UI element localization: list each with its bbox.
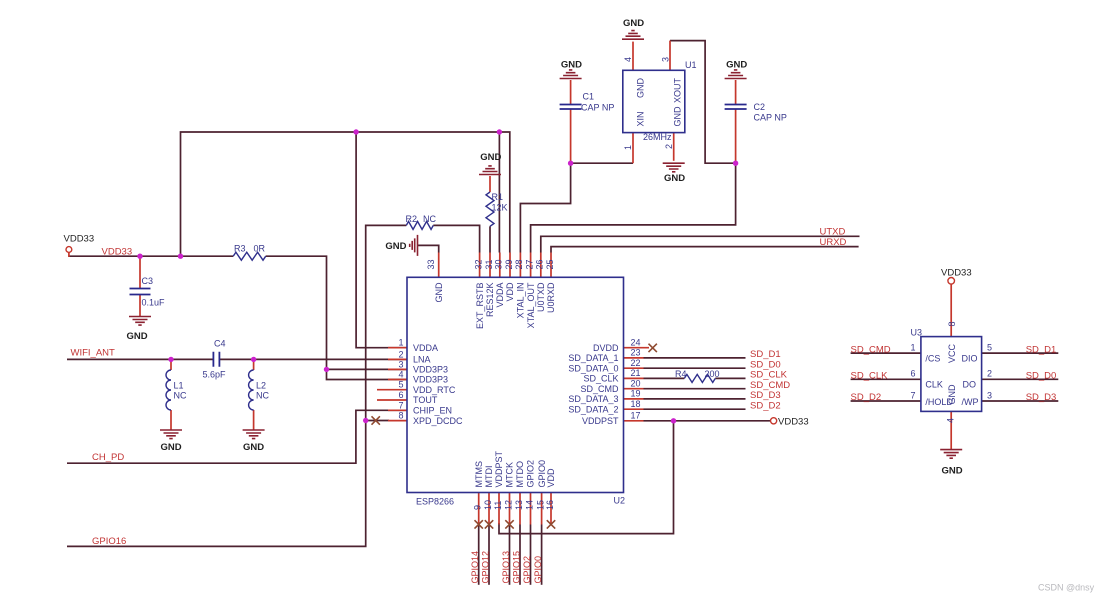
svg-text:R1: R1	[492, 192, 504, 202]
pin U3-8 VCC stub	[950, 284, 952, 336]
svg-text:GND: GND	[941, 466, 962, 477]
svg-text:XPD_DCDC: XPD_DCDC	[413, 416, 463, 426]
no-connect X pin 10	[485, 520, 493, 528]
pin 25 U0RXD stub	[550, 253, 552, 278]
pin 15 GPIO0 stub	[541, 493, 543, 525]
wire pin 8 stub link	[366, 420, 389, 422]
pin U1-2 GND stub	[673, 133, 675, 161]
svg-text:SD_CLK: SD_CLK	[583, 374, 618, 384]
svg-text:4: 4	[945, 418, 955, 423]
svg-text:GND: GND	[636, 78, 646, 99]
pin L2 top lead	[253, 359, 255, 370]
pin R1 top lead to ground	[489, 176, 491, 192]
capacitor C4 plates	[213, 352, 219, 367]
pin 12 MTCK stub	[509, 493, 511, 525]
wire U3 SD_D0 wire	[982, 378, 1059, 380]
wire CH_PD to pin 7 CHIP_EN	[67, 410, 407, 463]
svg-text:GPIO15: GPIO15	[512, 551, 522, 584]
svg-text:SD_D2: SD_D2	[851, 392, 882, 403]
svg-text:DVDD: DVDD	[593, 343, 619, 353]
svg-text:5.6pF: 5.6pF	[203, 370, 227, 380]
svg-text:VDDA: VDDA	[413, 343, 438, 353]
svg-text:L1: L1	[174, 381, 184, 391]
svg-text:VDDPST: VDDPST	[582, 416, 619, 426]
pin 16 VDD stub	[550, 493, 552, 525]
wire VDDPST net pin 17 to VDD33 port	[644, 420, 771, 422]
svg-text:/WP: /WP	[962, 397, 979, 407]
svg-text:17: 17	[631, 411, 641, 421]
junction node rail-VDDA	[353, 129, 358, 134]
svg-text:R2: R2	[406, 214, 418, 224]
svg-text:SD_D1: SD_D1	[1026, 344, 1057, 355]
svg-text:VDD33: VDD33	[778, 417, 809, 428]
wire XTAL_OUT net pin 27 to C2/XOUT junction	[531, 163, 736, 252]
svg-text:3: 3	[398, 359, 403, 369]
svg-text:7: 7	[910, 390, 915, 400]
junction node rail-pin30	[497, 129, 502, 134]
svg-text:GND: GND	[160, 442, 181, 453]
wire U3 SD_CLK wire	[851, 378, 921, 380]
svg-text:XTAL_OUT: XTAL_OUT	[526, 282, 536, 328]
junction node pin3 tap	[324, 367, 329, 372]
svg-text:VDD: VDD	[505, 282, 515, 302]
svg-text:6: 6	[398, 390, 403, 400]
resistor R2	[406, 221, 433, 229]
junction node rail tap	[178, 254, 183, 259]
svg-text:RES12K: RES12K	[485, 283, 495, 318]
svg-text:25: 25	[545, 259, 555, 269]
junction node L1 tap	[168, 357, 173, 362]
svg-text:U0RXD: U0RXD	[546, 282, 556, 313]
svg-text:GND: GND	[947, 384, 957, 405]
svg-text:2: 2	[664, 144, 674, 149]
pin 6 TOUT stub	[377, 399, 407, 401]
svg-text:GPIO2: GPIO2	[522, 556, 532, 584]
pin 24 DVDD stub	[624, 347, 650, 349]
svg-text:GND: GND	[726, 59, 747, 70]
svg-text:CAP NP: CAP NP	[581, 103, 614, 113]
resistor R1	[486, 192, 494, 226]
svg-text:2: 2	[398, 349, 403, 359]
wire VDD33 horizontal from port to R3	[69, 255, 233, 257]
svg-text:26: 26	[535, 259, 545, 269]
pin 11 VDDPST stub	[498, 493, 500, 525]
crystal U1 body	[623, 70, 685, 132]
svg-text:1: 1	[623, 145, 633, 150]
pin 30 VDDA stub	[499, 253, 501, 278]
capacitor C2 plates	[725, 105, 747, 110]
wire pin 33 GND link	[418, 245, 439, 252]
svg-text:3: 3	[661, 57, 671, 62]
wire U3 SD_CMD wire	[851, 352, 921, 354]
pin 33 GND stub	[438, 253, 440, 278]
svg-text:27: 27	[524, 259, 534, 269]
svg-text:MTMS: MTMS	[474, 461, 484, 488]
svg-text:NC: NC	[256, 391, 269, 401]
pin L1 top lead	[170, 359, 172, 370]
junction node C1-XIN	[568, 161, 573, 166]
pin 13 MTDO stub	[519, 493, 521, 525]
wire GPIO13 wire below pin 12	[509, 525, 511, 585]
svg-text:C1: C1	[583, 92, 595, 102]
capacitor C3 plates	[130, 289, 151, 295]
pin 27 XTAL_OUT stub	[530, 253, 532, 278]
svg-text:R3: R3	[234, 244, 246, 254]
wire SD_D1 net from pin 23	[644, 357, 746, 359]
wire U3 SD_D2 wire	[851, 400, 921, 402]
svg-text:CH_PD: CH_PD	[92, 452, 124, 463]
wire GPIO16 riser / R2 left arm to pin 8 XPD_DCDC	[67, 225, 406, 546]
svg-text:GPIO0: GPIO0	[533, 556, 543, 584]
pin 17 VDDPST stub	[624, 420, 644, 422]
pin C3 bottom lead	[139, 295, 141, 317]
svg-text:23: 23	[631, 348, 641, 358]
pin 23 SD_DATA_1 stub	[624, 357, 644, 359]
pin U3-4 GND stub	[950, 411, 952, 449]
svg-text:GPIO16: GPIO16	[92, 536, 126, 547]
op-amp U2 ESP8266 body	[407, 277, 624, 492]
svg-text:12K: 12K	[492, 203, 508, 213]
pin 1 VDDA stub	[388, 347, 407, 349]
wire rail drop to pin 30	[498, 132, 500, 253]
pin L2 bottom lead	[253, 410, 255, 430]
svg-text:U0TXD: U0TXD	[536, 282, 546, 312]
junction node L2 tap	[251, 357, 256, 362]
svg-text:28: 28	[514, 259, 524, 269]
svg-text:0R: 0R	[254, 244, 266, 254]
svg-text:CSDN @dnsy: CSDN @dnsy	[1038, 583, 1095, 593]
svg-text:VDD3P3: VDD3P3	[413, 375, 448, 385]
svg-text:GPIO12: GPIO12	[481, 551, 491, 584]
pin U1-3 XOUT stub	[669, 41, 671, 71]
svg-text:GND: GND	[434, 282, 444, 303]
svg-text:SD_D2: SD_D2	[750, 400, 781, 411]
wire U1 XOUT loop over top	[670, 41, 736, 164]
svg-text:1: 1	[398, 338, 403, 348]
svg-text:U1: U1	[685, 60, 697, 70]
svg-text:MTDI: MTDI	[484, 466, 494, 488]
svg-text:GND: GND	[385, 241, 406, 252]
svg-text:MTCK: MTCK	[505, 462, 515, 488]
svg-text:SD_DATA_0: SD_DATA_0	[568, 363, 618, 373]
junction node C3 tap	[137, 254, 142, 259]
junction node VDDPST tap	[671, 418, 676, 423]
svg-text:VCC: VCC	[947, 344, 957, 364]
pin C2 top lead	[735, 80, 737, 105]
pin C3 top lead	[139, 256, 141, 288]
svg-text:4: 4	[398, 370, 403, 380]
ground under U1 pin 2	[663, 163, 685, 172]
svg-text:SD_CLK: SD_CLK	[851, 371, 889, 382]
wire U3 SD_D1 wire	[982, 352, 1059, 354]
wire UTXD net from pin 26	[541, 236, 860, 252]
wire GPIO0 wire below pin 15	[541, 525, 543, 585]
svg-text:GND: GND	[480, 152, 501, 163]
pin L1 bottom lead	[170, 410, 172, 430]
svg-text:SD_D3: SD_D3	[1026, 392, 1057, 403]
svg-text:22: 22	[631, 358, 641, 368]
no-connect X pin 16	[547, 520, 555, 528]
wire branch to pin 3 VDD3P3	[327, 368, 408, 370]
inductor L1 coil	[166, 370, 171, 410]
pin 10 MTDI stub	[488, 493, 490, 525]
wire SD_CLK net from pin 21 through R4	[644, 377, 746, 379]
svg-text:29: 29	[504, 259, 514, 269]
wire VDD33 from R3 right to VDD3P3 pins 3-4 riser	[266, 256, 407, 379]
svg-text:SD_D0: SD_D0	[1026, 371, 1057, 382]
svg-text:XTAL_IN: XTAL_IN	[516, 283, 526, 319]
ground under L1	[160, 430, 182, 439]
svg-text:MTDO: MTDO	[515, 461, 525, 488]
wire URXD net from pin 25	[551, 247, 859, 253]
svg-text:C2: C2	[754, 102, 766, 112]
svg-text:VDD33: VDD33	[941, 268, 972, 279]
pin 29 VDD stub	[509, 253, 511, 278]
svg-text:TOUT: TOUT	[413, 395, 438, 405]
svg-text:30: 30	[494, 259, 504, 269]
inductor L2 coil	[249, 370, 254, 410]
pin 31 RES12K stub	[489, 253, 491, 278]
svg-text:SD_CMD: SD_CMD	[580, 384, 619, 394]
pin 21 SD_CLK stub	[624, 377, 644, 379]
svg-text:VDD_RTC: VDD_RTC	[413, 385, 456, 395]
ground under U3 pin 4	[940, 450, 962, 459]
pin 18 SD_DATA_2 stub	[624, 408, 644, 410]
pin 3 VDD3P3 stub	[388, 368, 407, 370]
svg-text:CLK: CLK	[925, 380, 943, 390]
flash U3 body	[921, 337, 982, 412]
svg-text:GPIO14: GPIO14	[470, 551, 480, 584]
svg-text:3: 3	[987, 390, 992, 400]
svg-text:2: 2	[987, 369, 992, 379]
svg-text:NC: NC	[174, 391, 187, 401]
wire R2 right arm to pin 32 EXT_RSTB	[433, 225, 479, 252]
svg-text:6: 6	[910, 369, 915, 379]
power port VDD33 at pin 17	[771, 418, 777, 424]
wire WIFI_ANT left of C4	[67, 358, 213, 360]
svg-text:NC: NC	[423, 214, 436, 224]
svg-text:R4: R4	[675, 369, 687, 379]
svg-text:C4: C4	[214, 339, 226, 349]
ground above C1	[560, 70, 582, 79]
svg-text:SD_DATA_3: SD_DATA_3	[568, 394, 618, 404]
wire WIFI_ANT right of C4 to pin 2 LNA	[219, 358, 407, 360]
resistor R3	[233, 252, 266, 260]
svg-text:GND: GND	[673, 106, 683, 127]
svg-text:26MHz: 26MHz	[643, 132, 672, 142]
ground under C3	[129, 317, 151, 326]
resistor R4	[684, 374, 715, 382]
no-connect X pin 8 XPD_DCDC	[372, 416, 380, 424]
pin 9 MTMS stub	[478, 493, 480, 525]
wire GPIO15 wire below pin 13	[519, 525, 521, 585]
svg-text:GND: GND	[623, 18, 644, 29]
svg-text:U3: U3	[911, 328, 923, 338]
ground above U1 pin 4	[622, 31, 644, 40]
pin 28 XTAL_IN stub	[519, 253, 521, 278]
svg-text:5: 5	[987, 342, 992, 352]
no-connect X pin 9	[475, 520, 483, 528]
pin VDD33 port stub top-left	[68, 252, 70, 257]
pin C1 top lead	[570, 80, 572, 105]
svg-text:1: 1	[910, 342, 915, 352]
svg-text:33: 33	[426, 259, 436, 269]
wire GPIO14 wire below pin 9	[478, 525, 480, 585]
ground left of pin 33	[410, 235, 418, 256]
svg-text:L2: L2	[256, 381, 266, 391]
ground above C2	[725, 70, 747, 79]
svg-text:XIN: XIN	[636, 111, 646, 126]
pin 4 VDD3P3 stub	[388, 379, 407, 381]
svg-text:EXT_RSTB: EXT_RSTB	[475, 283, 485, 330]
junction node pin8 tap	[363, 418, 368, 423]
svg-text:GPIO2: GPIO2	[526, 460, 536, 488]
pin 32 EXT_RSTB stub	[479, 253, 481, 278]
svg-text:UTXD: UTXD	[820, 227, 846, 238]
pin C1 bottom lead	[570, 109, 572, 162]
svg-text:GND: GND	[561, 59, 582, 70]
no-connect X pin 12	[505, 520, 513, 528]
svg-text:SD_DATA_2: SD_DATA_2	[568, 404, 618, 414]
svg-text:/CS: /CS	[925, 354, 940, 364]
wire XTAL_IN net pin 28 to C1/XIN junction	[520, 163, 570, 252]
pin 14 GPIO2 stub	[530, 493, 532, 525]
wire U3 SD_D3 wire	[982, 400, 1059, 402]
svg-text:8: 8	[947, 321, 957, 326]
wire SD_CMD net from pin 20	[644, 388, 746, 390]
svg-text:SD_DATA_1: SD_DATA_1	[568, 353, 618, 363]
pin 20 SD_CMD stub	[624, 388, 644, 390]
pin 7 CHIP_EN stub	[388, 409, 407, 411]
svg-text:5: 5	[398, 380, 403, 390]
wire VDDPST branch down to pin 11	[499, 421, 674, 534]
pin 5 VDD_RTC stub	[377, 389, 407, 391]
svg-text:9: 9	[473, 505, 483, 510]
svg-text:31: 31	[484, 259, 494, 269]
wire rail drop to pin 1 VDDA	[356, 132, 407, 348]
capacitor C1 plates	[560, 105, 582, 110]
svg-text:18: 18	[631, 399, 641, 409]
svg-text:VDD33: VDD33	[64, 234, 95, 245]
pin 19 SD_DATA_3 stub	[624, 398, 644, 400]
svg-text:4: 4	[623, 57, 633, 62]
svg-text:XOUT: XOUT	[673, 78, 683, 104]
svg-text:21: 21	[631, 368, 641, 378]
svg-text:VDD: VDD	[546, 468, 556, 488]
svg-text:13: 13	[514, 500, 524, 510]
svg-text:VDD3P3: VDD3P3	[413, 365, 448, 375]
wire GPIO2 wire below pin 14	[530, 525, 532, 585]
svg-text:32: 32	[473, 259, 483, 269]
ground above R1	[479, 166, 501, 175]
no-connect X pin 24 DVDD	[649, 344, 657, 352]
svg-text:WIFI_ANT: WIFI_ANT	[71, 348, 116, 359]
svg-text:ESP8266: ESP8266	[416, 497, 454, 507]
svg-text:GND: GND	[126, 331, 147, 342]
wire R1 bottom to pin 31 RES12K	[489, 226, 491, 252]
svg-text:7: 7	[398, 400, 403, 410]
junction node C2-XOUT	[733, 161, 738, 166]
svg-text:URXD: URXD	[820, 237, 847, 248]
svg-text:10: 10	[483, 500, 493, 510]
wire SD_D0 net from pin 22	[644, 367, 746, 369]
svg-text:DO: DO	[963, 380, 977, 390]
pin 22 SD_DATA_0 stub	[624, 367, 644, 369]
svg-text:VDD33: VDD33	[102, 247, 133, 258]
svg-text:DIO: DIO	[961, 354, 977, 364]
svg-text:19: 19	[631, 389, 641, 399]
svg-text:12: 12	[503, 500, 513, 510]
pin 26 U0TXD stub	[540, 253, 542, 278]
ground under L2	[243, 430, 265, 439]
svg-text:U2: U2	[614, 496, 626, 506]
power port VDD33 top-left	[66, 247, 72, 253]
pin 2 LNA stub	[388, 358, 407, 360]
svg-text:11: 11	[493, 501, 503, 510]
wire SD_D3 net from pin 19	[644, 398, 746, 400]
svg-text:LNA: LNA	[413, 355, 431, 365]
wire U1 XIN horizontal	[571, 162, 633, 164]
svg-text:C3: C3	[142, 276, 154, 286]
svg-text:8: 8	[398, 411, 403, 421]
wire SD_D2 net from pin 18	[644, 408, 746, 410]
svg-text:SD_CMD: SD_CMD	[851, 344, 891, 355]
svg-text:GND: GND	[243, 442, 264, 453]
svg-text:20: 20	[631, 379, 641, 389]
svg-text:14: 14	[524, 500, 534, 510]
pin C2 bottom lead	[735, 109, 737, 162]
svg-text:VDDPST: VDDPST	[494, 450, 504, 487]
svg-text:200: 200	[705, 369, 720, 379]
svg-text:16: 16	[545, 500, 555, 510]
svg-text:GPIO13: GPIO13	[501, 551, 511, 584]
pin U1-1 XIN stub	[632, 133, 634, 164]
svg-text:0.1uF: 0.1uF	[142, 298, 166, 308]
svg-text:CAP NP: CAP NP	[754, 113, 787, 123]
wire GPIO12 wire below pin 10	[488, 525, 490, 585]
svg-text:24: 24	[631, 338, 641, 348]
wire VDD33 top rail with drops to pins 30,29	[181, 132, 510, 256]
svg-text:VDDA: VDDA	[495, 283, 505, 308]
pin U1-4 GND stub	[632, 42, 634, 71]
power port VDD33 above U3	[948, 278, 955, 285]
pin 8 XPD_DCDC stub	[388, 420, 407, 422]
svg-text:CHIP_EN: CHIP_EN	[413, 406, 452, 416]
svg-text:GND: GND	[664, 173, 685, 184]
